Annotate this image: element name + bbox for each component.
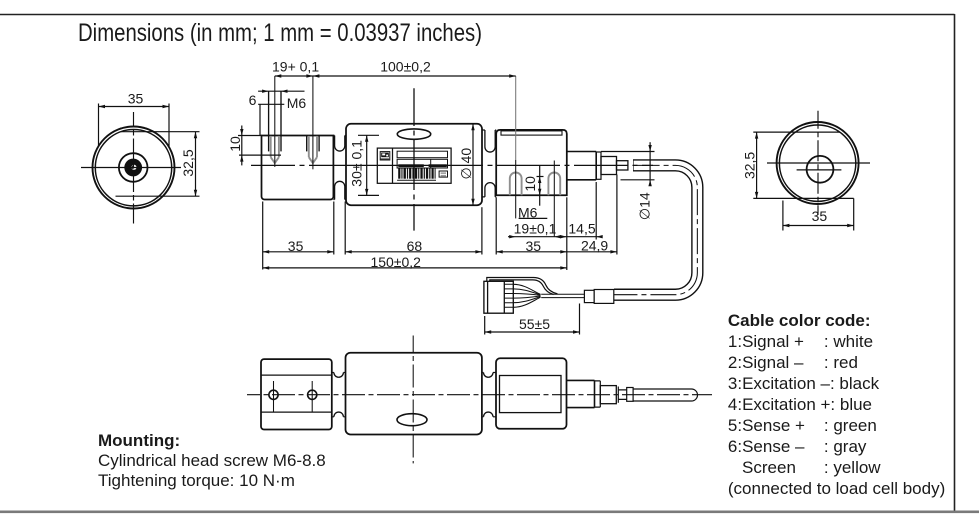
screw 2 [308,390,317,399]
left block outline [262,136,334,200]
right view vertical centerline [817,111,819,215]
right view inner circle [779,125,855,201]
right view outer circle [777,122,859,204]
dim 35 left dim line [263,251,334,253]
svg-text:32,5: 32,5 [742,152,758,179]
ext lines bottom dims [262,202,264,270]
bottom right block inner rect [500,376,562,413]
connector body [484,281,513,313]
neck 2 top edge + relief slot [482,129,496,131]
hole 1 centerline [274,76,276,167]
horizontal centerline [251,164,653,166]
bottom neck 1 top [332,372,346,374]
M6 leader underline (right block) [519,217,548,219]
svg-text:35: 35 [812,208,828,224]
ext line cylinder end [595,182,597,240]
dim 55±5 ext lines [485,304,580,335]
bottom neck 1 bottom [332,416,346,418]
hole 2 thread lines [306,136,308,152]
svg-text:M6: M6 [518,205,538,221]
left view inner circle [95,130,171,206]
hole 1 thread lines [268,91,270,151]
cable color code [728,310,945,499]
svg-text:M6: M6 [287,95,307,111]
threaded stub [617,161,628,170]
right view horizontal centerline [767,162,870,164]
left view center plug (filled) [124,159,142,177]
dim 14,5 dim line [560,236,602,238]
dim 32,5 (left view) dim line [195,132,197,197]
label divider [392,148,394,183]
left view outer circle [93,127,175,209]
thin cable to connector [541,294,584,297]
label logo caption marks [380,158,389,159]
bottom neck 2 bottom [482,416,496,418]
svg-text:10: 10 [227,136,243,152]
ferrule small [584,290,594,302]
dim 68 dim line [345,251,482,253]
svg-text:14,5: 14,5 [568,221,595,237]
label bottom strip line [397,179,436,181]
dim 19±0,1 (right block) dim line [508,236,562,238]
svg-text:∅ 40: ∅ 40 [458,148,474,180]
dim 100±0,2 line [313,75,516,77]
svg-text:19+ 0,1: 19+ 0,1 [272,59,319,75]
left view top chord / ext line [121,131,200,133]
right block hole 1 (hidden gray) [510,173,522,196]
bottom oval slot [397,414,427,426]
mounting note [98,431,326,491]
label barcode [398,168,435,178]
right block hole 2 (hidden gray) [548,173,560,196]
neck 1 top edge + relief slot [333,135,346,137]
hole 2 drill (hidden gray) [309,136,317,163]
label second field [397,159,447,168]
right block outline [496,130,567,195]
dim 19+0,1 line [275,75,313,77]
dim 35 (left view top) dim line [99,106,170,108]
svg-text:∅14: ∅14 [637,192,653,220]
dim 35 right view dim line [783,225,854,227]
right view small circle [807,156,834,183]
left view horizontal centerline [81,167,181,169]
neck 1 bottom edge + relief slot [333,199,346,201]
bottom thin neck [618,390,626,400]
svg-text:150±0,2: 150±0,2 [370,254,421,270]
bottom view horizontal centerline [247,394,712,396]
frame right border [954,14,956,511]
screw 1 [269,390,278,399]
right block top slab [501,131,562,135]
cylinder Ø14 [567,152,596,180]
bottom mid block [346,353,482,435]
right hole 2 centerline [553,161,555,237]
bottom right block [496,358,567,429]
bottom cylinder [567,380,595,407]
svg-text:35: 35 [526,238,542,254]
left view boss ring [119,153,148,182]
bottom straight cable [633,389,697,401]
dim 35 right dim line [496,251,567,253]
connector wire entries [504,284,513,307]
nut [601,157,617,175]
dim 32,5 right view dim line [756,132,758,198]
right view small circle chord line [797,169,842,171]
svg-text:19±0,1: 19±0,1 [514,221,557,237]
bottom view vertical centerline [412,336,414,464]
dim 35 right view ext lines [783,198,854,230]
svg-text:35: 35 [128,91,144,107]
dim 10 right dim line [539,166,541,206]
left view plug highlight [132,165,137,170]
svg-text:100±0,2: 100±0,2 [380,59,431,75]
svg-text:10: 10 [522,176,538,192]
dim 6 leader underline [258,104,284,135]
bottom gland [627,388,633,402]
bottom nut [600,386,616,404]
svg-text:32,5: 32,5 [180,149,196,176]
dim 10 left: depth ext [239,154,281,156]
svg-text:6: 6 [249,92,257,108]
neck 2 bottom edge + relief slot [482,196,496,198]
dim Ø40 dim line [472,124,474,205]
dim Ø14 dim line [649,142,651,186]
svg-text:35: 35 [288,238,304,254]
svg-text:24,9: 24,9 [581,237,608,253]
right hole 1 centerline [515,76,517,160]
dim 6 line [258,90,304,92]
screen wire over top [487,278,558,294]
dim 35 (left view top) ext lines [98,104,100,147]
bottom flange washer [595,381,601,407]
mid block vertical centerline [413,88,415,230]
dim 10 left: block top ext [238,135,262,137]
bottom left block [261,359,332,429]
label top text field [397,151,447,158]
bottom left block face lines [261,375,332,412]
bottom neck 2 top [482,372,496,374]
frame bottom gray rule [0,511,979,514]
svg-text:55±5: 55±5 [519,316,550,332]
dim 24,9 dim line [567,251,617,253]
frame top line [0,14,955,16]
cable entry edge [633,159,635,171]
dim Ø14 ext lines [601,152,655,180]
left view vertical centerline [133,112,135,224]
dim 55±5 dim line [485,331,580,333]
title [78,21,482,46]
flange washer [596,152,601,179]
mid block outline [346,124,482,205]
dim 30±0,1 dim line [366,135,368,195]
label outer rect [377,148,451,183]
dim 10 left: dim line [241,126,243,166]
wire fan [513,284,540,307]
label small box [439,171,447,177]
dim 30±0,1 ext lines [358,135,379,195]
svg-text:68: 68 [407,238,423,254]
cable centerline [614,165,697,294]
label logo box [380,152,390,160]
right view top chord / ext [753,131,840,133]
right view bottom chord / ext [753,197,853,199]
left view bottom chord / ext line [116,195,200,197]
hole 2 centerline [312,76,314,169]
dim 150±0,2 dim line [263,267,567,269]
ferrule large [594,290,614,304]
svg-text:30± 0,1: 30± 0,1 [349,140,365,187]
hole 1 drill (hidden gray) [271,136,279,163]
cable loop [614,165,697,294]
mid block oval slot [397,129,430,139]
